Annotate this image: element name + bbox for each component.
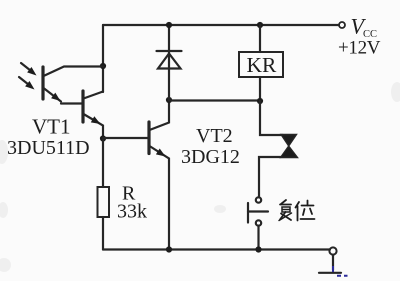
pushbutton SB wire bottom [257, 226, 259, 250]
transistor VT2 base bar [147, 122, 150, 154]
ground symbol bar [319, 272, 341, 274]
diode VD triangle [158, 54, 181, 69]
phototransistor VT1 emitter arrowhead [51, 93, 60, 101]
node junction dot top rail relay [257, 22, 263, 28]
node junction dot bottom rail VT2 emitter [166, 246, 172, 252]
label 复位 (reset) drawn strokes [279, 200, 315, 221]
resistor R1 wire bottom [102, 217, 104, 250]
relay coil KR wire top [259, 25, 261, 52]
ground symbol blue marks [333, 266, 348, 276]
transistor VT2 collector [150, 100, 170, 130]
relay coil KR body [239, 52, 283, 77]
transistor darlington collector [84, 92, 104, 99]
wire node A horizontal to relay [169, 99, 260, 101]
node junction dot bottom rail pushbutton [255, 246, 261, 252]
resistor R1 wire top [102, 139, 104, 188]
wire bottom rail [103, 248, 330, 250]
light arrow 2 [19, 77, 31, 87]
phototransistor VT1 base bar [41, 67, 44, 99]
pushbutton SB top contact [256, 197, 261, 202]
svg-text:3DU511D: 3DU511D [7, 137, 90, 159]
svg-text:+12V: +12V [338, 38, 381, 59]
node junction dot top rail diode [166, 22, 172, 28]
node junction dot VT1 collector [100, 63, 106, 69]
node junction dot collector node A [166, 97, 172, 103]
diode VD wire [168, 25, 170, 100]
svg-text:VT2: VT2 [196, 125, 233, 147]
transistor darlington emitter arrowhead [91, 116, 101, 124]
pushbutton SB actuator stem [248, 210, 268, 212]
svg-text:KR: KR [247, 53, 278, 77]
svg-text:3DG12: 3DG12 [181, 146, 240, 168]
transistor darlington emitter [84, 114, 104, 138]
contact KR bowtie top triangle [281, 135, 297, 147]
terminal Vcc circle [339, 22, 345, 28]
wire VT1 collector horizontal [44, 67, 104, 77]
wire top rail Vcc [103, 24, 339, 26]
node junction dot VT2 base node [100, 135, 106, 141]
wire left vertical (VT1 collector column) [102, 25, 104, 92]
pushbutton SB bottom contact [256, 220, 261, 225]
resistor R1 body [98, 187, 110, 217]
transistor darlington base bar [81, 91, 84, 122]
wire VT1 emitter to darlington base [61, 102, 83, 104]
transistor VT2 emitter [150, 146, 170, 250]
contact KR bowtie bottom triangle [281, 146, 298, 158]
transistor VT2 emitter arrowhead [156, 149, 166, 157]
phototransistor VT1 emitter [44, 88, 62, 102]
svg-text:VT1: VT1 [32, 115, 71, 139]
relay coil KR wire bottom [259, 77, 261, 101]
terminal ground circle [329, 247, 336, 254]
wire VT2 base horizontal [103, 137, 148, 139]
light arrow 1 [21, 63, 33, 73]
wire from contact bottom [259, 157, 281, 197]
wire to contact top [260, 101, 283, 135]
pushbutton SB bridge bar [247, 203, 249, 223]
svg-text:33k: 33k [117, 201, 147, 223]
wire ground [332, 255, 334, 270]
node junction dot below relay [257, 98, 263, 104]
diode VD cathode bar [157, 50, 182, 52]
